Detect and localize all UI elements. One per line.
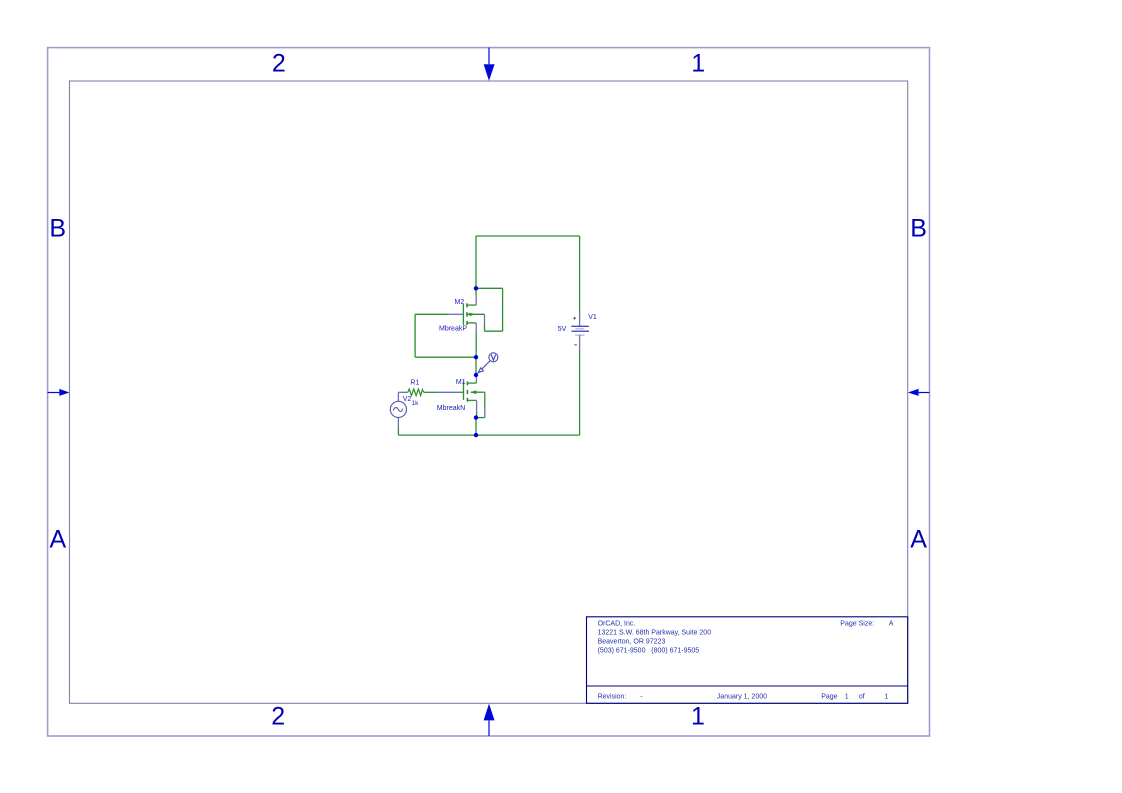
wire VDD drop to M2 (475, 236, 477, 295)
svg-text:A: A (910, 526, 927, 554)
svg-text:5V: 5V (558, 326, 567, 333)
svg-text:2: 2 (272, 49, 286, 77)
transistor M1 MbreakN (464, 381, 485, 402)
transistor M2 MbreakP (463, 303, 484, 325)
wire M1 bulk down (484, 392, 486, 407)
wire M2 bulk loop up (484, 324, 486, 331)
svg-text:B: B (910, 214, 927, 242)
svg-text:1: 1 (884, 694, 888, 701)
pin M1 source (476, 400, 478, 412)
svg-text:Page: Page (821, 694, 837, 701)
wire M2 source to node (475, 334, 477, 358)
wire top rail (476, 235, 580, 237)
svg-text:Revision:: Revision: (598, 694, 627, 701)
svg-text:1: 1 (845, 694, 849, 701)
svg-text:B: B (49, 214, 66, 242)
voltage probe V (478, 353, 498, 373)
svg-text:MbreakP: MbreakP (439, 326, 467, 333)
pin M2 gate (449, 313, 463, 315)
svg-text:1: 1 (691, 703, 705, 731)
svg-text:V1: V1 (588, 314, 597, 321)
wire M2 gate loop down (414, 314, 416, 357)
wire M2 gate loop to node (415, 356, 476, 358)
svg-text:January 1, 2000: January 1, 2000 (717, 694, 767, 701)
junction node M1 source (474, 415, 478, 419)
wire V2 bottom to rail (397, 428, 399, 435)
outer border frame (48, 48, 930, 736)
pin M1 bulk (484, 407, 486, 418)
svg-text:Beaverton, OR 97223: Beaverton, OR 97223 (598, 638, 666, 645)
wire M2 gate left (415, 313, 449, 315)
source V2 (390, 392, 406, 428)
svg-text:(503) 671-9500 (800) 671-950: (503) 671-9500 (800) 671-9505 (598, 647, 700, 654)
wire M2 bulk lead horizontal (476, 287, 503, 289)
title block box (587, 617, 908, 704)
border arrow bottom (484, 704, 495, 736)
svg-text:OrCAD, Inc.: OrCAD, Inc. (598, 620, 636, 627)
wire R1 to M1 gate (424, 391, 438, 393)
svg-text:R1: R1 (410, 379, 419, 386)
wire M1 source to node (476, 412, 478, 418)
resistor R1 (408, 389, 424, 396)
svg-text:1: 1 (691, 49, 705, 77)
wire bottom rail (398, 434, 579, 436)
pin M1 gate (437, 391, 459, 393)
junction node output (474, 373, 478, 377)
pin M1 drain (475, 375, 477, 383)
wire M1 gate stub (459, 391, 463, 393)
wire right rail upper (579, 236, 581, 314)
svg-text:13221 S.W. 68th Parkway, Suite: 13221 S.W. 68th Parkway, Suite 200 (598, 629, 712, 636)
wire source node to bottom rail (475, 418, 477, 436)
pin M2 source (475, 323, 477, 334)
svg-text:1k: 1k (412, 400, 420, 407)
wire M2 bulk loop bottom (485, 330, 503, 332)
battery V1 plus mark (573, 317, 576, 320)
title block company text (598, 620, 712, 654)
title block separator line (587, 685, 908, 687)
svg-text:2: 2 (271, 703, 285, 731)
svg-text:V2: V2 (403, 396, 412, 403)
wire V2 to R1 (398, 391, 407, 393)
junction node VDD (474, 286, 478, 290)
border arrow left (48, 389, 70, 396)
wire output node vertical (475, 357, 477, 375)
svg-text:M1: M1 (456, 379, 466, 386)
border arrow right (908, 389, 930, 396)
svg-text:A: A (50, 526, 67, 554)
probe V letter (491, 355, 496, 361)
battery V1 (571, 314, 589, 351)
junction node bottom rail (474, 433, 478, 437)
wire right rail lower (579, 350, 581, 435)
title block revision row text (598, 694, 889, 701)
wire M1 bulk to source node (476, 417, 485, 419)
svg-text:MbreakN: MbreakN (437, 405, 465, 412)
inner border frame (70, 81, 908, 703)
border arrow top (484, 48, 495, 81)
svg-text:M2: M2 (455, 299, 465, 306)
pin M2 bulk (484, 314, 486, 324)
svg-text:Page Size:: Page Size: (840, 620, 874, 627)
pin M2 drain (475, 295, 477, 306)
title block page size text (840, 620, 894, 627)
svg-text:A: A (889, 620, 894, 627)
battery V1 minus mark (574, 344, 577, 346)
svg-text:of: of (859, 694, 865, 701)
wire M2 bulk loop right (502, 288, 504, 331)
junction node gate-drain (474, 355, 478, 359)
